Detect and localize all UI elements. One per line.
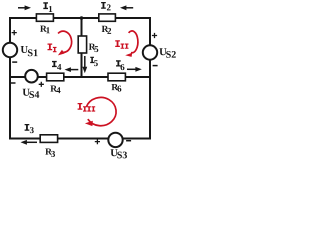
US2 polarity - xyxy=(153,65,158,67)
voltage source US2 xyxy=(143,45,157,59)
label US1 xyxy=(21,46,38,56)
current arrow I3 xyxy=(21,140,38,145)
label I6 xyxy=(116,60,124,70)
resistor R2 xyxy=(99,14,116,21)
US1 polarity - xyxy=(12,61,17,63)
resistor R1 xyxy=(36,14,53,21)
label R5 xyxy=(89,44,99,52)
label I2 xyxy=(101,2,111,10)
label R3 xyxy=(45,149,55,157)
label R6 xyxy=(112,84,122,92)
junction node (top center) xyxy=(80,16,84,20)
label US2 xyxy=(159,48,175,58)
label R2 xyxy=(102,26,111,34)
voltage source US1 xyxy=(3,43,17,57)
wire middle vertical (through R5) xyxy=(81,18,83,77)
wire right (through US2) xyxy=(149,17,151,140)
voltage source US4 xyxy=(25,70,38,83)
label R4 xyxy=(50,86,60,94)
label I3 xyxy=(25,124,34,133)
US4 polarity + xyxy=(39,82,44,87)
US2 polarity + xyxy=(152,33,157,38)
label mesh current I_II (loop 2) xyxy=(115,40,128,49)
voltage source US3 xyxy=(108,133,122,147)
label mesh current I_I (loop 1) xyxy=(48,44,57,53)
current arrow I4 xyxy=(65,67,79,72)
wire middle horizontal (through US4, R4, R6) xyxy=(10,76,150,78)
mesh loop arrow I_II xyxy=(125,31,138,57)
label US4 xyxy=(23,89,40,98)
resistor R5 xyxy=(78,36,86,53)
label mesh current I_III (loop 3) xyxy=(78,103,96,112)
US4 polarity - xyxy=(11,82,16,84)
mesh loop arrow I_III xyxy=(85,97,116,126)
resistor R3 xyxy=(40,135,57,143)
US1 polarity + xyxy=(12,30,17,35)
wire top (node A to node B via R1, R2) xyxy=(10,17,150,19)
label R1 xyxy=(40,26,50,34)
wire bottom (through R3, US3) xyxy=(10,138,150,140)
label US3 xyxy=(111,149,127,158)
resistor R6 xyxy=(108,73,125,81)
wire left (through US1) xyxy=(9,17,11,140)
label I5 xyxy=(90,57,98,66)
current arrow I5 xyxy=(82,56,87,73)
US3 polarity + xyxy=(95,139,100,144)
current arrow I1 xyxy=(18,5,31,10)
current arrow I6 xyxy=(127,67,142,72)
label I4 xyxy=(52,61,61,70)
mesh loop arrow I_I xyxy=(58,31,72,55)
current arrow I2 xyxy=(120,5,133,10)
label I1 xyxy=(43,2,52,12)
US3 polarity - xyxy=(126,140,131,142)
resistor R4 xyxy=(47,73,64,81)
